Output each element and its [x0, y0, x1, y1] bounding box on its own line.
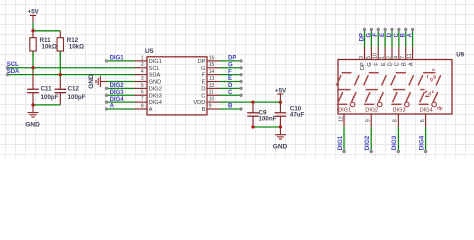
C12 top lead	[59, 78, 61, 89]
wire D from U5	[220, 87, 242, 89]
7-segment digit 2 graphic	[364, 73, 387, 107]
svg-text:3: 3	[359, 56, 365, 59]
wire DIG4 to U5	[107, 101, 135, 103]
svg-text:6: 6	[420, 119, 426, 122]
wire A to U5	[107, 108, 135, 110]
segment annotation underline marks	[431, 72, 436, 74]
SDA wire end dot	[6, 73, 9, 76]
svg-text:E: E	[380, 33, 386, 37]
U9 bottom pin 9 (DIG2)	[370, 114, 372, 127]
svg-text:GND: GND	[88, 74, 95, 89]
svg-text:47uF: 47uF	[290, 111, 305, 118]
svg-text:1: 1	[141, 55, 144, 61]
E wire end dot	[239, 80, 242, 83]
wire C10 bottom lead	[279, 116, 281, 127]
svg-text:B: B	[401, 62, 407, 66]
svg-text:SDA: SDA	[149, 73, 161, 79]
U5 pin 6 (DIG3)	[135, 94, 148, 96]
svg-text:D: D	[201, 86, 205, 92]
svg-text:DIG4: DIG4	[418, 135, 425, 150]
svg-text:D: D	[388, 62, 394, 66]
svg-text:4: 4	[393, 56, 399, 59]
junction R11/SCL	[31, 66, 34, 69]
U9 4-digit 7-segment display box	[338, 60, 452, 115]
svg-text:SCL: SCL	[7, 62, 19, 68]
U5 pin 8 (A)	[135, 108, 148, 110]
svg-text:DP: DP	[197, 59, 205, 65]
U9 top pin 5 (G)	[370, 47, 372, 60]
U9 top pin 3 (DP)	[364, 47, 366, 60]
G wire end dot	[239, 66, 242, 69]
svg-text:F: F	[202, 73, 206, 79]
svg-text:DIG1: DIG1	[337, 135, 344, 150]
U9 bottom pin 12 (DIG1)	[343, 114, 345, 127]
svg-text:G: G	[366, 33, 372, 38]
svg-text:15: 15	[209, 62, 215, 68]
U9 top pin 11 (A)	[412, 47, 414, 60]
C11 bottom lead	[32, 93, 34, 105]
svg-text:b: b	[433, 74, 436, 79]
D wire end dot	[239, 87, 242, 90]
svg-text:A: A	[408, 62, 414, 66]
junction C11/GND	[31, 103, 34, 106]
svg-text:D: D	[387, 32, 393, 37]
svg-text:SCL: SCL	[149, 66, 160, 72]
svg-text:7: 7	[141, 97, 144, 103]
U5 pin 12 (D)	[207, 87, 220, 89]
svg-text:DIG2: DIG2	[149, 86, 162, 92]
capacitor C10 47uF	[275, 113, 287, 116]
U9 top pin 2 (D)	[391, 47, 393, 60]
svg-text:11: 11	[209, 90, 214, 96]
svg-text:C: C	[395, 62, 401, 66]
svg-text:E: E	[228, 76, 232, 82]
svg-text:11: 11	[407, 53, 413, 59]
capacitor C12 100pF	[55, 89, 67, 92]
svg-text:+5V: +5V	[28, 8, 40, 15]
wire C11-C12 ground link	[33, 104, 60, 106]
svg-text:E: E	[202, 80, 206, 86]
U9 bottom pin 8 (DIG3)	[397, 114, 399, 127]
U5 pin 4 (SDA)	[135, 74, 148, 76]
ground GND (left)	[28, 105, 39, 117]
wire G from U5	[220, 67, 242, 69]
U5 pin 13 (E)	[207, 81, 220, 83]
svg-text:B: B	[228, 104, 233, 110]
svg-text:14: 14	[209, 69, 215, 75]
svg-text:A: A	[149, 107, 153, 113]
svg-text:DIG4: DIG4	[149, 100, 162, 106]
svg-text:7: 7	[400, 56, 406, 59]
svg-text:B: B	[401, 32, 407, 37]
svg-text:8: 8	[141, 103, 144, 109]
C wire end dot	[239, 94, 242, 97]
U9 top pin 1 (E)	[384, 47, 386, 60]
svg-text:DIG3: DIG3	[393, 108, 406, 114]
svg-text:3: 3	[141, 76, 144, 82]
svg-text:DIG1: DIG1	[338, 108, 351, 114]
svg-text:DIG4: DIG4	[110, 97, 125, 103]
U5 pin 10 (VDD)	[207, 101, 220, 103]
svg-text:DIG2: DIG2	[365, 108, 378, 114]
wire +5V to VDD rail	[279, 101, 281, 102]
wire C10 top lead	[279, 102, 281, 113]
wire B from U5	[220, 108, 242, 110]
svg-text:6: 6	[141, 90, 144, 96]
svg-text:9: 9	[209, 103, 212, 109]
DP wire end dot	[239, 59, 242, 62]
U9 top pin 7 (B)	[405, 47, 407, 60]
svg-text:10: 10	[373, 53, 379, 59]
U5 pin 2 (SCL)	[135, 67, 148, 69]
op-amp U5 controller box	[147, 57, 207, 115]
wire C9 bottom lead	[252, 116, 254, 127]
U5 pin 15 (G)	[207, 67, 220, 69]
wire R11 to SCL node	[32, 52, 34, 72]
U5 pin 7 (DIG4)	[135, 101, 148, 103]
svg-text:SDA: SDA	[7, 69, 20, 75]
junction VDD/C9	[251, 100, 254, 103]
svg-text:GND: GND	[149, 80, 162, 86]
svg-text:13: 13	[209, 76, 215, 82]
U5 pin 3 (GND)	[135, 81, 148, 83]
svg-text:dp: dp	[437, 105, 443, 110]
SCL wire end dot	[6, 66, 9, 69]
7-segment digit 1 graphic	[336, 73, 359, 107]
C11 top lead	[32, 72, 34, 90]
svg-text:C12: C12	[68, 86, 80, 93]
svg-text:5: 5	[366, 56, 372, 59]
svg-text:D: D	[228, 83, 233, 89]
svg-text:a: a	[432, 67, 435, 72]
ground GND (right)	[275, 127, 286, 139]
svg-text:DIG1: DIG1	[149, 59, 162, 65]
C12 bottom lead	[59, 93, 61, 105]
svg-text:DIG1: DIG1	[110, 56, 125, 62]
wire R12 to SDA node	[59, 52, 61, 79]
wire E from U5	[220, 81, 242, 83]
svg-text:100nF: 100nF	[259, 116, 277, 123]
DIG1 wire end dot	[105, 59, 108, 62]
svg-text:DIG2: DIG2	[110, 83, 125, 89]
wire C from U5	[220, 94, 242, 96]
svg-text:1: 1	[380, 56, 386, 59]
svg-text:DP: DP	[359, 33, 365, 41]
junction C10/GND	[279, 125, 282, 128]
U5 pin 1 (DIG1)	[135, 60, 148, 62]
wire VDD rail	[220, 101, 281, 103]
wire C9-C10 ground link	[253, 126, 280, 128]
DIG4 wire end dot	[105, 100, 108, 103]
U5 pin 11 (C)	[207, 94, 220, 96]
svg-text:F: F	[228, 69, 232, 75]
U5 pin 16 (DP)	[207, 60, 220, 62]
svg-text:c: c	[432, 89, 435, 94]
svg-text:DIG3: DIG3	[149, 93, 162, 99]
svg-text:4: 4	[141, 69, 144, 75]
svg-text:100pF: 100pF	[68, 94, 86, 101]
svg-text:F: F	[374, 62, 380, 66]
svg-text:DIG4: DIG4	[420, 108, 433, 114]
7-segment digit 4 graphic	[418, 73, 441, 107]
svg-text:F: F	[373, 33, 379, 37]
svg-text:GND: GND	[273, 144, 288, 151]
wire SDA rail	[8, 74, 136, 76]
svg-text:DIG3: DIG3	[391, 135, 398, 150]
wire C9 top lead	[252, 102, 254, 113]
U5 pin 14 (F)	[207, 74, 220, 76]
svg-text:10: 10	[209, 97, 215, 103]
svg-text:B: B	[202, 107, 206, 113]
7-segment digit 3 graphic	[391, 73, 414, 107]
svg-text:+5V: +5V	[275, 87, 287, 94]
junction VDD/+5V/C10	[279, 100, 282, 103]
U5 pin 9 (B)	[207, 108, 220, 110]
junction R12/SDA	[59, 73, 62, 76]
svg-text:DP: DP	[360, 62, 366, 70]
svg-text:C: C	[201, 93, 205, 99]
svg-text:8: 8	[393, 119, 399, 122]
svg-text:VDD: VDD	[193, 100, 205, 106]
U5 pin 5 (DIG2)	[135, 87, 148, 89]
svg-text:A: A	[407, 32, 413, 37]
wire F from U5	[220, 74, 242, 76]
wire DIG2 to U5	[107, 87, 135, 89]
svg-text:12: 12	[338, 116, 344, 122]
svg-text:2: 2	[141, 62, 144, 68]
svg-text:G: G	[228, 62, 233, 68]
svg-text:G: G	[201, 66, 205, 72]
wire node to R12	[33, 30, 60, 32]
wire U5 GND pin	[107, 81, 135, 83]
junction C9 bottom	[251, 125, 254, 128]
svg-text:10kΩ: 10kΩ	[42, 44, 57, 51]
wire DIG3 to U5	[107, 94, 135, 96]
svg-text:GND: GND	[25, 122, 40, 129]
wire DIG1 to U5	[107, 60, 135, 62]
svg-text:DIG3: DIG3	[110, 90, 125, 96]
svg-text:16: 16	[209, 55, 215, 61]
DIG2 wire end dot	[105, 87, 108, 90]
svg-text:DIG2: DIG2	[364, 135, 371, 150]
B wire end dot	[239, 107, 242, 110]
svg-text:G: G	[367, 62, 373, 67]
svg-text:12: 12	[209, 83, 215, 89]
wire SCL rail	[8, 67, 136, 69]
svg-text:C: C	[394, 32, 400, 37]
svg-text:C: C	[228, 90, 233, 96]
svg-text:C11: C11	[41, 86, 53, 93]
capacitor C9 100nF	[247, 113, 259, 116]
U9 top pin 10 (F)	[377, 47, 379, 60]
DIG3 wire end dot	[105, 94, 108, 97]
svg-text:5: 5	[141, 83, 144, 89]
resistor R11 10k	[30, 31, 57, 58]
wire +5V to R11/R12 node	[32, 22, 34, 30]
svg-text:2: 2	[386, 56, 392, 59]
junction +5V node	[31, 29, 34, 32]
U9 bottom pin 6 (DIG4)	[425, 114, 427, 127]
resistor R12 10k	[57, 31, 84, 58]
svg-text:DP: DP	[228, 56, 236, 62]
U9 top pin 4 (C)	[398, 47, 400, 60]
svg-text:U5: U5	[145, 48, 154, 55]
svg-text:9: 9	[366, 119, 372, 122]
svg-text:A: A	[110, 104, 115, 110]
svg-text:U9: U9	[456, 52, 464, 59]
svg-text:E: E	[381, 62, 387, 66]
capacitor C11 100pF	[27, 89, 39, 92]
A wire end dot	[105, 107, 108, 110]
F wire end dot	[239, 73, 242, 76]
svg-text:100pF: 100pF	[41, 94, 59, 101]
wire DP from U5	[220, 60, 242, 62]
svg-text:10kΩ: 10kΩ	[69, 44, 84, 51]
GND flag stub	[100, 81, 106, 83]
